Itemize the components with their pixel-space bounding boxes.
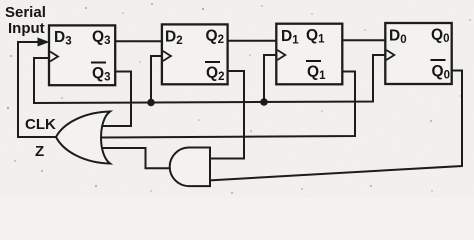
clock edge symbol FF4 (386, 50, 394, 60)
svg-text:Z: Z (35, 143, 44, 160)
wire Q0-bar to AND gate bottom input (211, 71, 462, 181)
wire Q2 to D1 (228, 40, 277, 42)
wire Q1-bar to OR gate middle input (101, 72, 355, 138)
wire Q3 to D2 (115, 40, 162, 42)
flip-flop U4 (D0) (385, 23, 451, 84)
flip-flop U2 (D2) (162, 24, 228, 84)
clock edge symbol FF2 (163, 51, 171, 61)
svg-text:Serial: Serial (5, 4, 46, 21)
wire Z feedback to serial input (OR output up to D3) (18, 42, 56, 137)
OR gate (points left, output Z) (56, 112, 110, 164)
wire clock stub to FF3 (264, 55, 276, 102)
AND gate (points left) (170, 148, 210, 187)
svg-text:Input: Input (8, 20, 45, 37)
clock bus CLK (34, 55, 385, 103)
junction dot clock/FF2 (147, 99, 155, 107)
arrowhead into D3 (38, 38, 50, 47)
wire Q2-bar to AND gate top input (211, 71, 244, 159)
clock edge symbol FF1 (50, 52, 58, 62)
wire Q3-bar to OR gate top input (102, 72, 131, 127)
wire Q1 to D0 (342, 39, 385, 41)
wire clock stub to FF2 (151, 56, 162, 103)
junction dot clock/FF3 (260, 98, 268, 106)
wire AND output to OR bottom input (102, 148, 171, 168)
clock edge symbol FF3 (277, 50, 285, 60)
flip-flop U1 (D3) (49, 25, 115, 85)
svg-text:CLK: CLK (25, 116, 56, 133)
flip-flop U3 (D1) (276, 24, 342, 85)
